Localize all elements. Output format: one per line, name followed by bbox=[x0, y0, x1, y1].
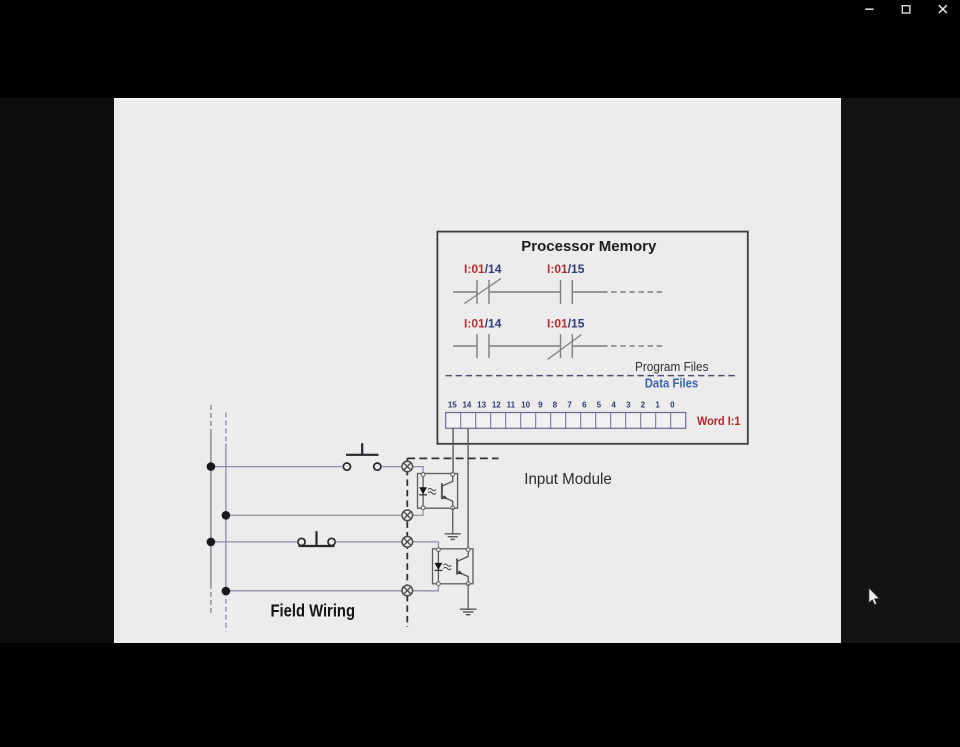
wire terminal T3 to opto U2 anode bbox=[413, 542, 439, 548]
svg-text:9: 9 bbox=[538, 401, 543, 410]
svg-text:5: 5 bbox=[597, 401, 602, 410]
rung 1 label I:01/14 bbox=[464, 262, 502, 276]
junction dot row3 bbox=[207, 538, 216, 547]
opto U1 phototransistor Q1 bbox=[442, 475, 453, 508]
pushbutton PB2 (NC) bbox=[298, 531, 335, 546]
ground GND2 bbox=[460, 609, 477, 615]
optocoupler U2 body bbox=[433, 549, 474, 584]
junction dot row2 bbox=[222, 511, 231, 520]
window close button bbox=[939, 5, 947, 13]
wire row3 rail to pushbutton PB2 bbox=[211, 541, 297, 543]
svg-text:8: 8 bbox=[553, 401, 558, 410]
svg-text:7: 7 bbox=[567, 401, 572, 410]
rung 2 label I:01/15 bbox=[547, 317, 585, 331]
rung 1 contact I:01/15 (NO) bbox=[561, 280, 573, 304]
svg-text:15: 15 bbox=[448, 401, 457, 410]
svg-text:I:01/14: I:01/14 bbox=[464, 317, 502, 331]
window minimize button bbox=[865, 8, 873, 10]
junction dot row4 bbox=[222, 587, 231, 596]
wire terminal T4 to opto U2 cathode bbox=[413, 585, 439, 590]
svg-text:6: 6 bbox=[582, 401, 587, 410]
svg-text:14: 14 bbox=[462, 401, 471, 410]
input module boundary dashed vertical bbox=[406, 458, 408, 627]
wire U2 emitter to ground bbox=[467, 584, 469, 609]
rung 1 wire middle bbox=[489, 291, 561, 293]
label Input Module bbox=[524, 471, 612, 488]
rung 1 wire lead-in bbox=[453, 291, 477, 293]
svg-text:Word I:1: Word I:1 bbox=[697, 414, 741, 428]
wire row2 rail to terminal T2 bbox=[226, 514, 402, 516]
opto U2 phototransistor Q2 bbox=[457, 550, 468, 584]
svg-text:1: 1 bbox=[655, 401, 660, 410]
opto U1 pins bbox=[421, 473, 454, 510]
wire bit 14 to optocoupler U2 bbox=[467, 428, 469, 549]
wire row1 rail to pushbutton PB1 bbox=[211, 466, 342, 468]
opto U1 light symbol bbox=[428, 488, 436, 494]
wire PB1 to terminal T1 bbox=[381, 466, 402, 468]
window maximize button bbox=[902, 6, 910, 13]
wire terminal T2 to opto U1 cathode bbox=[413, 510, 424, 516]
terminal T1 bbox=[402, 461, 413, 472]
rung 2 dashed continuation bbox=[602, 345, 665, 347]
ground GND1 bbox=[445, 534, 461, 540]
opto U2 pins bbox=[437, 548, 471, 586]
rung 2 label I:01/14 bbox=[464, 317, 502, 331]
pushbutton PB1 (NO) bbox=[343, 443, 381, 470]
video area left pillarbox bbox=[0, 98, 114, 643]
svg-text:10: 10 bbox=[521, 401, 530, 410]
svg-text:Processor Memory: Processor Memory bbox=[521, 238, 657, 255]
junction dot row1 bbox=[207, 462, 216, 471]
svg-text:I:01/14: I:01/14 bbox=[464, 262, 502, 276]
wire PB2 to terminal T3 bbox=[336, 541, 403, 543]
wire row4 rail to terminal T4 bbox=[226, 590, 402, 592]
rung 2 contact I:01/14 (NO) bbox=[477, 334, 489, 358]
svg-text:I:01/15: I:01/15 bbox=[547, 317, 585, 331]
svg-text:Field Wiring: Field Wiring bbox=[271, 601, 356, 621]
svg-text:3: 3 bbox=[626, 401, 631, 410]
svg-text:0: 0 bbox=[670, 401, 675, 410]
opto U2 LED D2 bbox=[435, 550, 443, 584]
svg-text:13: 13 bbox=[477, 401, 486, 410]
svg-text:4: 4 bbox=[611, 401, 616, 410]
svg-text:Program Files: Program Files bbox=[635, 360, 709, 374]
label Data Files bbox=[645, 376, 699, 390]
processor memory box bbox=[437, 232, 747, 444]
word register I:1 bbox=[446, 413, 686, 429]
rung 1 contact I:01/14 (NC) bbox=[465, 279, 502, 305]
optocoupler U1 body bbox=[418, 474, 458, 509]
terminal T3 bbox=[402, 537, 413, 548]
rung 2 wire trailing bbox=[572, 345, 602, 347]
rung 2 wire lead-in bbox=[453, 345, 477, 347]
mouse cursor bbox=[869, 588, 879, 605]
label Field Wiring bbox=[271, 601, 356, 621]
svg-text:Input Module: Input Module bbox=[524, 471, 612, 488]
program/data files dashed divider bbox=[446, 375, 738, 377]
rung 1 label I:01/15 bbox=[547, 262, 585, 276]
video area right pillarbox bbox=[841, 98, 960, 643]
label Program Files bbox=[635, 360, 709, 374]
svg-text:Data Files: Data Files bbox=[645, 376, 699, 390]
rung 1 wire trailing bbox=[572, 291, 602, 293]
svg-text:2: 2 bbox=[641, 401, 646, 410]
power rail L1 (left, dashed ends) bbox=[210, 405, 212, 614]
terminal T2 bbox=[402, 510, 413, 521]
svg-text:11: 11 bbox=[507, 401, 516, 410]
title Processor Memory bbox=[521, 238, 657, 255]
rung 2 contact I:01/15 (NC) bbox=[548, 334, 582, 360]
opto U1 LED D1 bbox=[419, 475, 427, 508]
wire terminal T1 to opto U1 anode bbox=[413, 467, 424, 473]
slide background bbox=[114, 98, 841, 643]
opto U2 light symbol bbox=[443, 564, 451, 570]
svg-text:I:01/15: I:01/15 bbox=[547, 262, 585, 276]
terminal T4 bbox=[402, 585, 413, 596]
wire bit 15 to optocoupler U1 bbox=[452, 428, 454, 474]
input module boundary dashed horizontal bbox=[407, 457, 498, 459]
bit number labels 15..0 bbox=[448, 401, 675, 410]
svg-text:12: 12 bbox=[492, 401, 501, 410]
wire U1 emitter to ground bbox=[452, 508, 454, 534]
power rail L2 (right, dashed ends) bbox=[225, 413, 227, 632]
rung 1 dashed continuation bbox=[602, 291, 665, 293]
label Word I:1 bbox=[697, 414, 741, 428]
rung 2 wire middle bbox=[489, 345, 561, 347]
